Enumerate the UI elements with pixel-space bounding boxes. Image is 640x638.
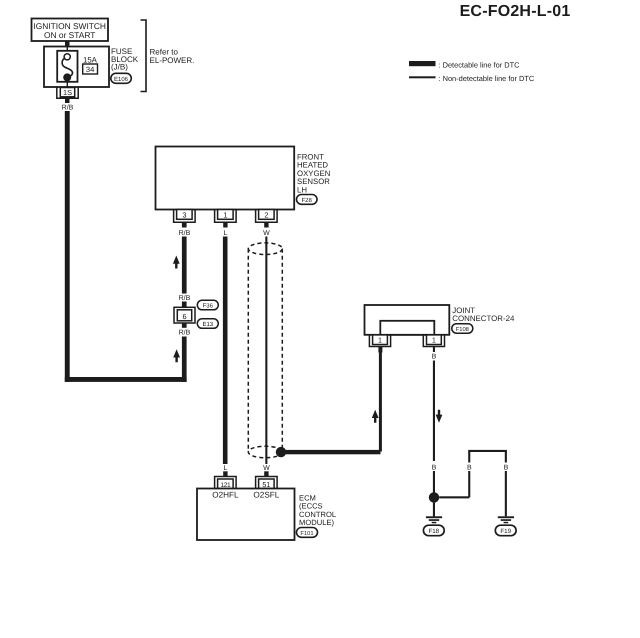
fuse block box J/B	[44, 47, 109, 88]
wire main left vertical thick	[65, 111, 70, 382]
svg-text:15A: 15A	[83, 55, 98, 64]
connector F108 oval	[452, 324, 473, 334]
svg-text:EC-FO2H-L-01: EC-FO2H-L-01	[460, 3, 571, 20]
wire R/B riser lower segment	[182, 337, 187, 382]
terminal 51 of ECM	[256, 477, 278, 489]
svg-text:O2SFL: O2SFL	[253, 490, 279, 499]
svg-text:O2HFL: O2HFL	[212, 490, 239, 499]
connector 1S	[57, 88, 78, 99]
connector E106 oval	[111, 73, 132, 83]
svg-text:R/B: R/B	[179, 229, 191, 237]
wire segment connector6 to label	[182, 323, 187, 328]
svg-text:LH: LH	[297, 185, 307, 194]
wire bridge top horizontal	[468, 450, 507, 452]
terminal 1 joint connector right	[423, 335, 444, 347]
svg-text:1: 1	[378, 336, 382, 345]
svg-text:F108: F108	[456, 326, 469, 333]
wire stub above terminal 51	[264, 471, 268, 476]
wire stub above terminal 121	[223, 471, 227, 476]
svg-text:ON or START: ON or START	[44, 30, 95, 40]
wire joint connector left leg	[378, 347, 382, 452]
fuse number 34	[83, 64, 98, 74]
ground symbol F19	[498, 516, 514, 523]
wire B vertical lower segment	[433, 471, 435, 493]
wire bridge left leg lower	[468, 471, 470, 497]
svg-text:W: W	[263, 230, 270, 237]
svg-text:1S: 1S	[63, 88, 72, 97]
label ECM (ECCS CONTROL MODULE)	[299, 494, 336, 528]
svg-text:E106: E106	[114, 76, 129, 83]
ignition switch box	[32, 19, 109, 42]
connector F101 oval	[297, 528, 318, 538]
svg-text:W: W	[263, 465, 270, 472]
svg-text:B: B	[432, 465, 437, 472]
connector F18 oval	[423, 525, 444, 536]
svg-text:1: 1	[223, 211, 227, 220]
svg-text:F101: F101	[300, 530, 313, 537]
ECM box	[197, 489, 295, 541]
arrow up joint connector left	[372, 410, 379, 423]
wire stub below 1S	[65, 99, 70, 103]
legend non-detectable line for DTC	[409, 74, 535, 83]
wire segment label to connector 6	[182, 302, 187, 308]
connector 6	[174, 307, 195, 323]
svg-text:CONNECTOR-24: CONNECTOR-24	[452, 314, 515, 323]
terminal 1 of sensor	[215, 210, 237, 228]
svg-text:2: 2	[264, 211, 268, 220]
connector E13 oval	[197, 319, 218, 329]
wire B vertical upper segment	[433, 361, 435, 462]
connector F36 oval	[197, 300, 218, 310]
svg-text:F19: F19	[500, 528, 511, 535]
wire W thin vertical	[265, 237, 267, 465]
svg-text:F36: F36	[203, 303, 214, 310]
svg-text:: Non-detectable line for DTC: : Non-detectable line for DTC	[439, 74, 535, 83]
junction dot on shield	[276, 447, 286, 457]
svg-text:L: L	[223, 230, 227, 237]
front heated oxygen sensor box	[156, 147, 331, 210]
connector F19 oval	[495, 525, 516, 536]
svg-text:34: 34	[86, 65, 94, 74]
wire shield ground horizontal thick	[281, 450, 381, 454]
wire ignition switch to fuse block	[65, 41, 70, 47]
wire bridge right leg lower	[505, 471, 507, 516]
svg-text:L: L	[223, 465, 227, 472]
svg-text:R/B: R/B	[179, 294, 191, 302]
wire bottom horizontal thick	[65, 377, 187, 382]
svg-text:F28: F28	[302, 197, 313, 204]
wire joint connector right stub	[433, 347, 435, 353]
svg-text:R/B: R/B	[62, 104, 74, 112]
arrow up lower	[173, 349, 180, 362]
terminal 1 joint connector left	[369, 335, 390, 347]
label FUSE BLOCK (J/B)	[111, 47, 139, 72]
arrow down joint connector right	[436, 410, 443, 423]
ground symbol F18	[426, 516, 442, 523]
svg-text:(J/B): (J/B)	[111, 63, 128, 72]
arrow up upper	[173, 256, 180, 269]
label JOINT CONNECTOR-24	[452, 306, 515, 323]
wire bridge right leg upper	[505, 452, 507, 463]
svg-text:B: B	[504, 465, 509, 472]
terminal 3 of sensor	[174, 210, 196, 228]
terminal 121 of ECM	[215, 477, 237, 489]
wire bridge left leg upper	[468, 452, 470, 463]
svg-text:51: 51	[262, 480, 270, 489]
wire splice to ground F18	[433, 503, 435, 517]
legend detectable line for DTC	[409, 61, 520, 70]
svg-text:6: 6	[182, 312, 186, 321]
bracket refer to EL-POWER	[141, 20, 195, 92]
splice dot B	[429, 492, 439, 502]
svg-text:1: 1	[432, 336, 436, 345]
svg-text:F18: F18	[428, 528, 439, 535]
svg-text:EL-POWER.: EL-POWER.	[150, 56, 195, 65]
svg-text:B: B	[467, 465, 472, 472]
wire L thick vertical	[223, 237, 228, 465]
svg-text:: Detectable line for DTC: : Detectable line for DTC	[439, 61, 521, 70]
svg-text:B: B	[432, 354, 437, 361]
terminal 2 of sensor	[256, 210, 278, 228]
wire splice to bridge horizontal	[439, 496, 469, 498]
svg-text:E13: E13	[202, 321, 213, 328]
shield dashed cylinder	[248, 243, 282, 458]
fuse F34 symbol	[57, 47, 77, 88]
wire segment below sensor to label	[182, 237, 187, 294]
svg-text:R/B: R/B	[179, 329, 191, 337]
svg-text:3: 3	[182, 211, 186, 220]
connector F28 oval	[297, 195, 318, 205]
joint connector-24 box	[365, 305, 450, 335]
svg-text:MODULE): MODULE)	[299, 518, 334, 527]
